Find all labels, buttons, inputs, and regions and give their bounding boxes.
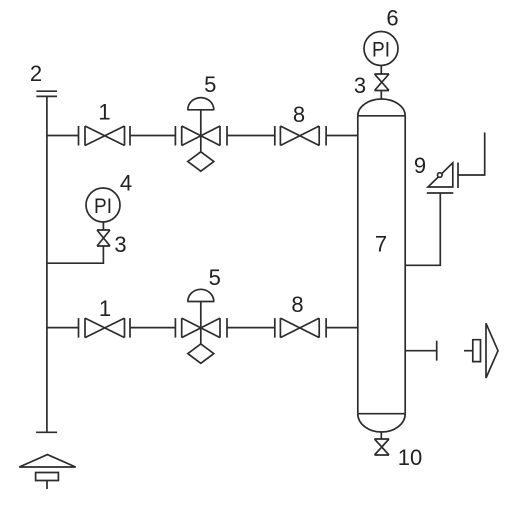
header pipe (vertical) <box>46 96 48 432</box>
valve 8 (bottom) <box>275 318 326 338</box>
wire: valve 8 to vessel (top) <box>326 135 358 137</box>
vessel 7 shell <box>358 116 405 414</box>
nozzle: vessel right side <box>405 341 437 361</box>
instrument 9 triangle <box>428 163 453 187</box>
wire: header to valve 1 (top) <box>47 135 79 137</box>
valve 1 (top) <box>79 126 131 146</box>
svg-text:6: 6 <box>386 5 398 30</box>
pressure indicator PI 6 <box>364 32 398 66</box>
svg-text:3: 3 <box>114 232 126 257</box>
stem: PI 6 to valve 3 (top) <box>380 66 382 75</box>
valve 10 (bottom, vertical) <box>375 439 390 455</box>
wire: valve 8 to vessel (bottom) <box>326 327 358 329</box>
stem: valve 3 to vessel top <box>380 91 382 100</box>
wire: valve 5 to valve 8 (bottom) <box>227 327 275 329</box>
svg-text:4: 4 <box>120 171 132 196</box>
svg-text:9: 9 <box>414 153 426 178</box>
valve 3 (left, vertical) <box>97 230 110 246</box>
svg-text:8: 8 <box>291 292 303 317</box>
control valve 5 (bottom) stem <box>200 302 202 344</box>
control valve 5 (bottom) diamond <box>188 344 214 363</box>
ejector body rectangle <box>473 340 481 362</box>
header bottom cap <box>36 431 57 433</box>
control valve 5 (top) stem <box>200 110 202 152</box>
stem: vessel bottom to valve 10 <box>380 432 382 439</box>
svg-text:7: 7 <box>375 232 387 257</box>
svg-text:PI: PI <box>372 38 390 62</box>
ejector inlet line <box>464 350 473 352</box>
svg-text:3: 3 <box>354 73 366 98</box>
vessel 7 top head <box>358 99 405 116</box>
ejector cone triangle <box>486 323 498 378</box>
wire: valve 1 to control valve 5 (top) <box>130 135 175 137</box>
wire: valve 1 to control valve 5 (bottom) <box>130 327 175 329</box>
control valve 5 (top) actuator dome <box>187 98 214 110</box>
control valve 5 (bottom) actuator dome <box>187 289 214 301</box>
control valve 5 (bottom) : flanges + body <box>175 318 227 338</box>
wire: valve 5 to valve 8 (top) <box>227 135 275 137</box>
valve 3 (top of vessel, vertical) <box>375 74 390 91</box>
valve 1 (bottom) <box>79 318 131 338</box>
svg-text:5: 5 <box>209 265 221 290</box>
svg-text:1: 1 <box>98 100 110 125</box>
instrument 9 circle <box>438 173 443 178</box>
header top cap (double line) <box>36 91 57 96</box>
svg-text:8: 8 <box>293 102 305 127</box>
control valve 5 (top) diamond <box>188 152 214 171</box>
svg-text:5: 5 <box>204 72 216 97</box>
control valve 5 (top) : flanges + body <box>175 126 227 146</box>
wire: instrument 9 down to vessel <box>405 193 440 265</box>
pressure indicator PI 4 <box>86 188 120 222</box>
svg-text:2: 2 <box>30 61 42 86</box>
instrument 9 flange tick <box>457 163 459 189</box>
valve 8 (top) <box>275 126 326 146</box>
wire: header to valve 1 (bottom) <box>47 327 79 329</box>
svg-text:PI: PI <box>94 194 112 218</box>
vent/drain symbol <box>19 455 75 489</box>
instrument 9 base line <box>427 192 454 194</box>
wire: valve 3 down and left to header <box>47 246 104 263</box>
svg-text:1: 1 <box>99 296 111 321</box>
vessel 7 bottom head <box>358 414 405 432</box>
svg-text:10: 10 <box>398 445 422 470</box>
stem: PI 4 to valve 3 <box>102 222 104 230</box>
wire: instrument 9 signal right and up <box>458 133 485 176</box>
